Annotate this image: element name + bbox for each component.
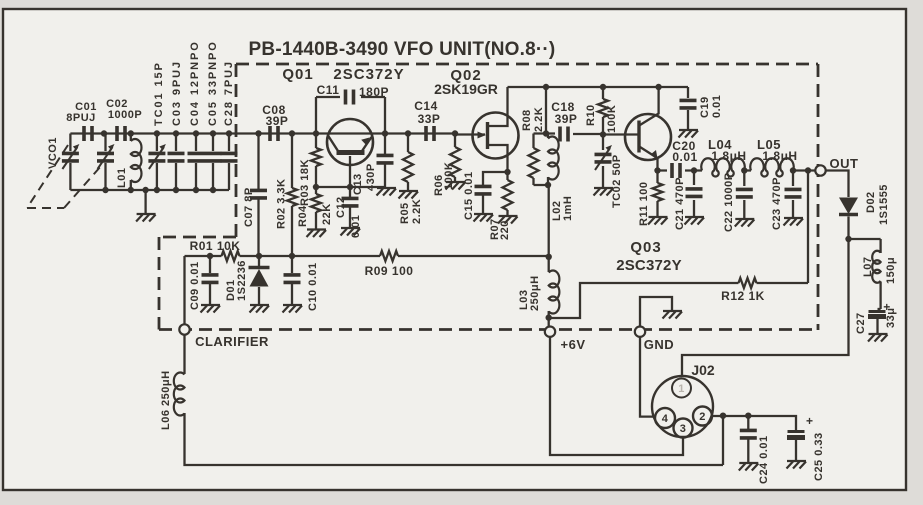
- svg-text:R02 3.3K: R02 3.3K: [276, 179, 288, 229]
- svg-text:C14: C14: [414, 99, 438, 113]
- svg-text:PB-1440B-3490 VFO UNIT(NO.8··): PB-1440B-3490 VFO UNIT(NO.8··): [249, 39, 556, 60]
- svg-text:C19: C19: [699, 96, 711, 118]
- svg-text:C13: C13: [352, 173, 364, 195]
- svg-text:C07 8P: C07 8P: [243, 187, 255, 227]
- svg-text:1S1555: 1S1555: [878, 184, 890, 225]
- svg-text:R11 100: R11 100: [638, 182, 650, 226]
- svg-text:0.01: 0.01: [672, 150, 697, 164]
- svg-text:2.2K: 2.2K: [533, 107, 545, 132]
- svg-text:1.8μH: 1.8μH: [762, 149, 797, 163]
- svg-text:1S2236: 1S2236: [236, 260, 248, 301]
- svg-text:250μH: 250μH: [529, 275, 541, 311]
- svg-text:GND: GND: [644, 337, 674, 352]
- svg-text:33P: 33P: [418, 112, 441, 126]
- svg-text:C22 1000P: C22 1000P: [723, 172, 735, 232]
- svg-text:0.01: 0.01: [350, 215, 362, 238]
- svg-text:1mH: 1mH: [562, 196, 574, 221]
- svg-text:C10 0.01: C10 0.01: [307, 262, 319, 311]
- svg-text:R10: R10: [585, 104, 597, 126]
- svg-text:39P: 39P: [266, 114, 289, 128]
- svg-text:2.2K: 2.2K: [411, 199, 423, 224]
- svg-text:2: 2: [699, 411, 706, 423]
- svg-text:C11: C11: [317, 83, 340, 97]
- svg-text:C23 470P: C23 470P: [771, 177, 783, 230]
- svg-text:0.01: 0.01: [711, 95, 723, 118]
- svg-text:J02: J02: [691, 362, 715, 378]
- svg-text:TC02 50P: TC02 50P: [611, 154, 623, 208]
- svg-text:4: 4: [662, 413, 669, 425]
- svg-text:2SC372Y: 2SC372Y: [333, 66, 404, 83]
- svg-text:2SK19GR: 2SK19GR: [434, 81, 498, 97]
- svg-text:C21 470P: C21 470P: [674, 177, 686, 230]
- svg-text:1: 1: [678, 383, 685, 395]
- svg-text:R01 10K: R01 10K: [190, 239, 241, 253]
- svg-text:C25 0.33: C25 0.33: [813, 432, 825, 481]
- svg-text:22K: 22K: [321, 203, 333, 225]
- svg-text:1.8μH: 1.8μH: [711, 149, 746, 163]
- svg-text:39P: 39P: [555, 112, 578, 126]
- svg-text:+: +: [806, 414, 814, 428]
- svg-text:220: 220: [499, 220, 511, 240]
- svg-text:8PUJ: 8PUJ: [66, 112, 96, 124]
- svg-text:C05 33PNPO: C05 33PNPO: [207, 40, 219, 126]
- svg-text:R12 1K: R12 1K: [721, 289, 765, 303]
- svg-text:TC01 15P: TC01 15P: [153, 61, 165, 126]
- svg-text:C12: C12: [335, 196, 347, 218]
- svg-text:150μ: 150μ: [885, 257, 897, 284]
- svg-text:−: −: [877, 327, 885, 341]
- svg-text:OUT: OUT: [830, 156, 859, 171]
- svg-text:Q03: Q03: [630, 239, 661, 256]
- svg-text:D02: D02: [865, 191, 877, 213]
- svg-text:100K: 100K: [606, 105, 618, 133]
- svg-text:100K: 100K: [443, 162, 455, 190]
- svg-text:L07: L07: [862, 257, 874, 277]
- svg-text:Q01: Q01: [282, 66, 313, 83]
- svg-text:R08: R08: [521, 109, 533, 131]
- svg-text:1000P: 1000P: [108, 109, 142, 121]
- svg-text:C15 0.01: C15 0.01: [463, 171, 475, 220]
- svg-text:R03 18K: R03 18K: [299, 159, 311, 206]
- svg-text:C27: C27: [855, 312, 867, 334]
- svg-text:C04 12PNPO: C04 12PNPO: [189, 40, 201, 126]
- svg-text:180P: 180P: [359, 85, 389, 99]
- svg-text:C24 0.01: C24 0.01: [758, 435, 770, 484]
- svg-text:+6V: +6V: [561, 337, 586, 352]
- svg-text:L06 250μH: L06 250μH: [160, 370, 172, 430]
- svg-text:3: 3: [680, 423, 687, 435]
- svg-text:R04: R04: [297, 205, 309, 227]
- svg-text:R09 100: R09 100: [365, 264, 414, 278]
- svg-text:L01: L01: [116, 168, 128, 188]
- svg-text:2SC372Y: 2SC372Y: [616, 257, 682, 274]
- svg-text:CLARIFIER: CLARIFIER: [195, 334, 269, 349]
- svg-text:R05: R05: [399, 202, 411, 224]
- svg-text:33μ: 33μ: [885, 308, 897, 328]
- svg-text:VCO1: VCO1: [47, 137, 59, 169]
- svg-text:C28 7PUJ: C28 7PUJ: [223, 60, 235, 126]
- svg-text:C09 0.01: C09 0.01: [189, 261, 201, 310]
- svg-text:C03 9PUJ: C03 9PUJ: [171, 60, 183, 126]
- svg-text:430P: 430P: [365, 163, 377, 191]
